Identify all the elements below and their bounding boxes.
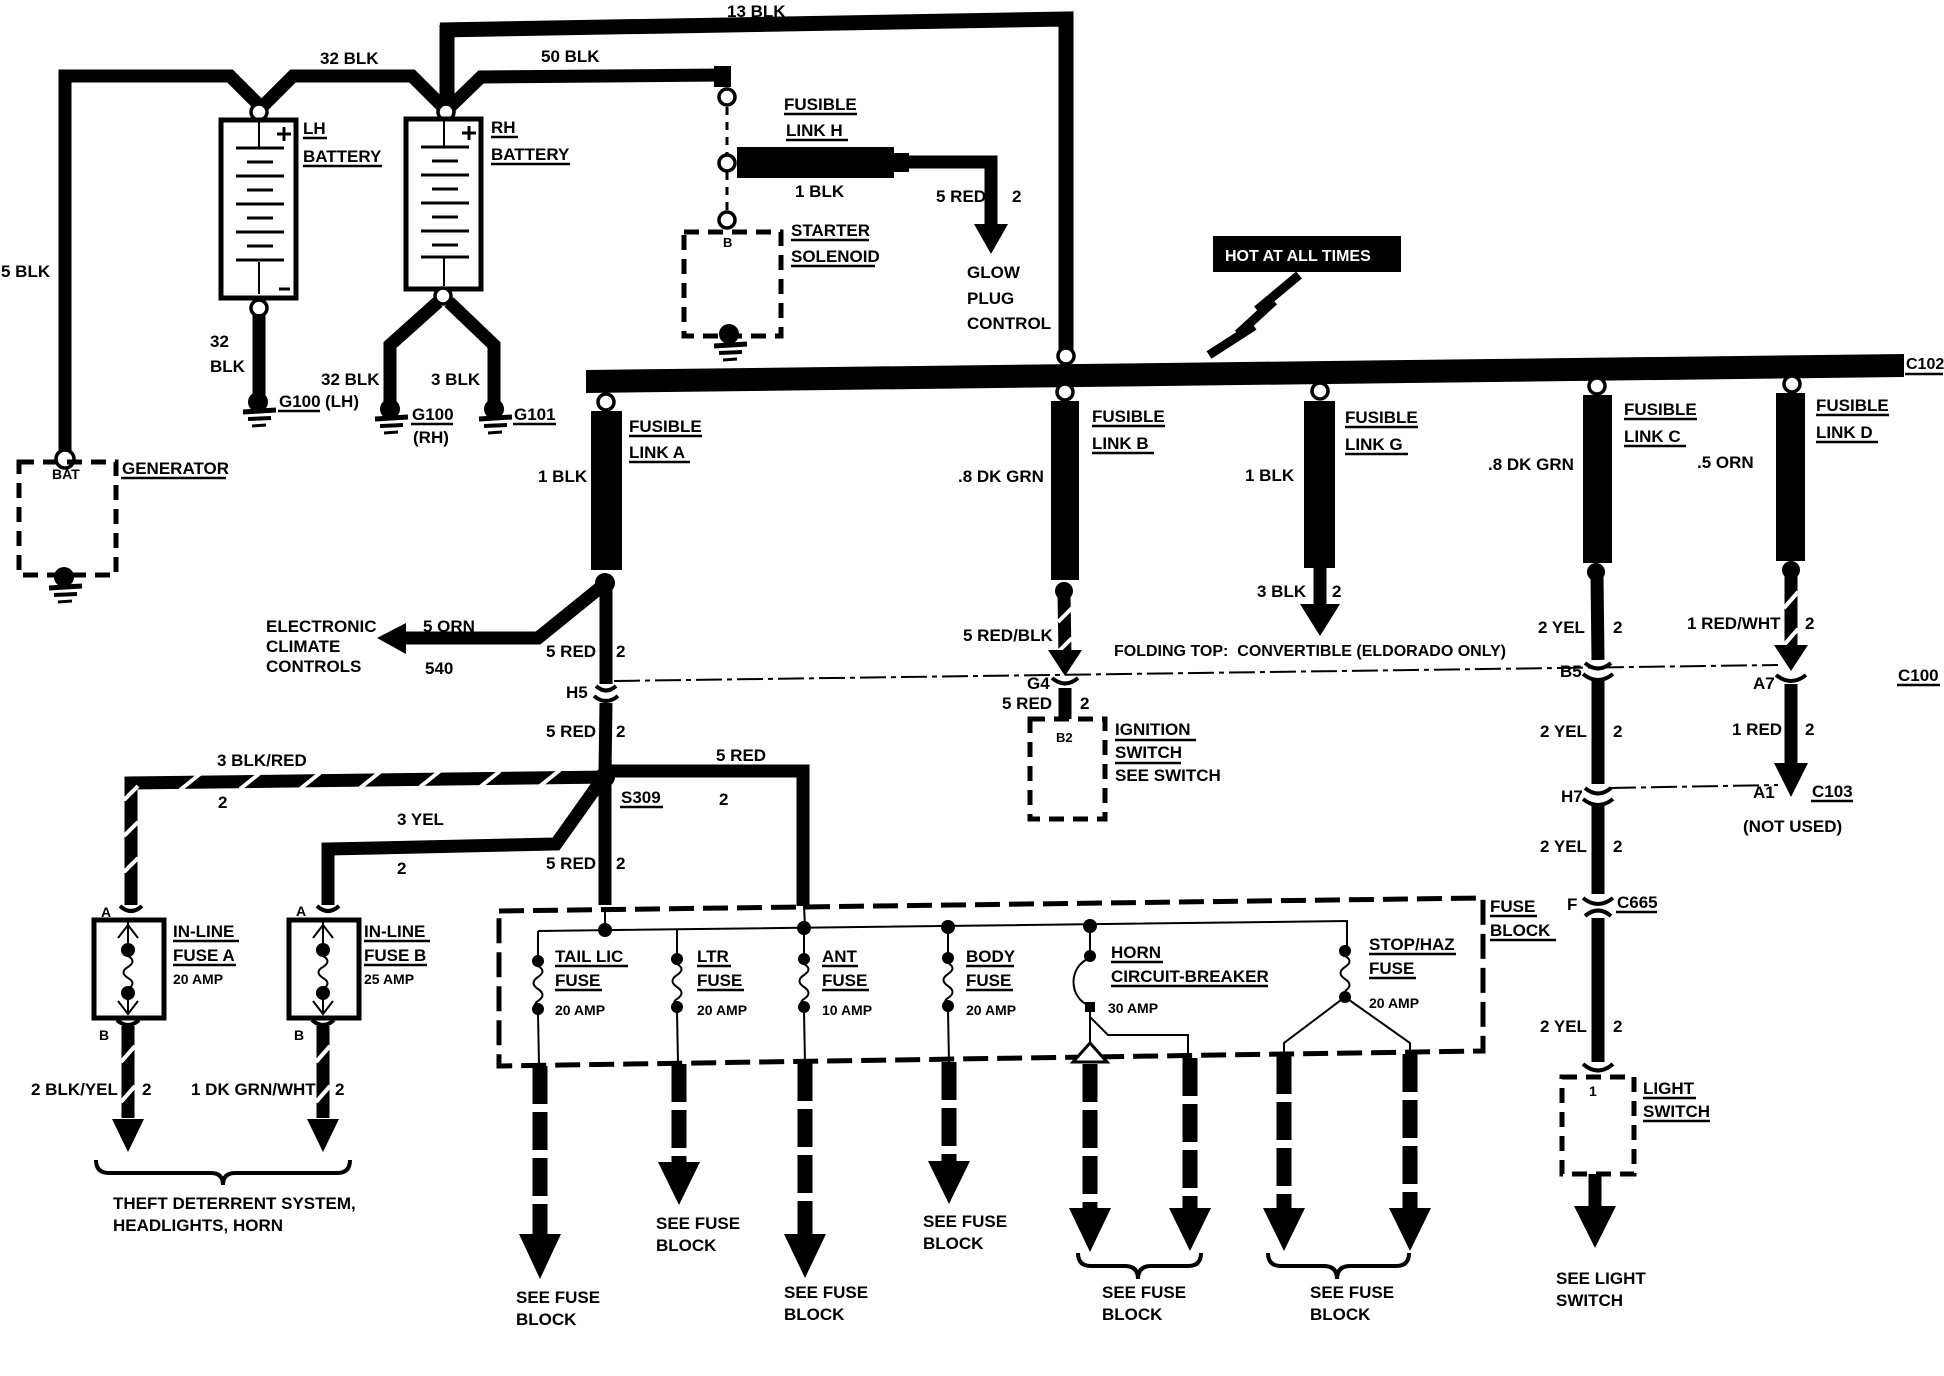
svg-text:SWITCH: SWITCH bbox=[1556, 1291, 1623, 1310]
svg-text:BLOCK: BLOCK bbox=[923, 1234, 984, 1253]
connector A in-line fuse B bbox=[296, 903, 339, 919]
node S309 splice bbox=[595, 767, 663, 807]
svg-text:2: 2 bbox=[616, 722, 625, 741]
svg-text:LINK G: LINK G bbox=[1345, 435, 1403, 454]
svg-text:50 BLK: 50 BLK bbox=[541, 47, 600, 66]
svg-text:B5: B5 bbox=[1560, 662, 1582, 681]
svg-text:FUSE B: FUSE B bbox=[364, 946, 426, 965]
svg-text:SEE FUSE: SEE FUSE bbox=[656, 1214, 740, 1233]
node starter solenoid B terminal bbox=[719, 212, 735, 228]
node fusible link H terminal bbox=[719, 155, 735, 171]
node fusible link G top terminal bbox=[1312, 383, 1328, 399]
svg-text:2: 2 bbox=[1613, 837, 1622, 856]
svg-text:FUSE: FUSE bbox=[1490, 897, 1535, 916]
svg-text:IGNITION: IGNITION bbox=[1115, 720, 1191, 739]
svg-text:B2: B2 bbox=[1056, 730, 1073, 745]
svg-text:5 ORN: 5 ORN bbox=[423, 617, 475, 636]
wire 3 BLK arrow below link G bbox=[1257, 566, 1341, 636]
svg-text:G100: G100 bbox=[279, 392, 321, 411]
svg-text:BLOCK: BLOCK bbox=[1310, 1305, 1371, 1324]
ground G100 (RH) bbox=[375, 399, 454, 447]
connector H5 bbox=[566, 683, 618, 702]
wire 2 YEL H7 to C665 bbox=[1540, 806, 1622, 894]
svg-text:B: B bbox=[99, 1027, 109, 1043]
svg-text:LTR: LTR bbox=[697, 947, 729, 966]
svg-text:1 BLK: 1 BLK bbox=[795, 182, 845, 201]
connector B5 bbox=[1560, 662, 1613, 681]
svg-text:2: 2 bbox=[616, 854, 625, 873]
svg-text:BLOCK: BLOCK bbox=[656, 1236, 717, 1255]
svg-text:IN-LINE: IN-LINE bbox=[173, 922, 234, 941]
svg-text:(RH): (RH) bbox=[413, 428, 449, 447]
fuse STOP/HAZ 20 AMP bbox=[1284, 935, 1456, 1056]
starter solenoid bbox=[684, 221, 880, 336]
svg-text:H5: H5 bbox=[566, 683, 588, 702]
node fusible link D top terminal bbox=[1784, 376, 1800, 392]
svg-text:C103: C103 bbox=[1812, 782, 1853, 801]
svg-text:2 YEL: 2 YEL bbox=[1538, 618, 1585, 637]
svg-text:BATTERY: BATTERY bbox=[491, 145, 570, 164]
wire dashed arrow stop haz right bbox=[1389, 1054, 1431, 1251]
svg-text:3 YEL: 3 YEL bbox=[397, 810, 444, 829]
svg-text:10 AMP: 10 AMP bbox=[822, 1002, 872, 1018]
svg-text:SOLENOID: SOLENOID bbox=[791, 247, 880, 266]
wire dashed arrow below TAIL LIC fuse bbox=[516, 1066, 600, 1329]
svg-text:2: 2 bbox=[1805, 614, 1814, 633]
svg-text:THEFT DETERRENT SYSTEM,: THEFT DETERRENT SYSTEM, bbox=[113, 1194, 356, 1213]
svg-text:BATTERY: BATTERY bbox=[303, 147, 382, 166]
svg-text:SEE FUSE: SEE FUSE bbox=[784, 1283, 868, 1302]
wire 1 RED C100 to C103 bbox=[1732, 684, 1814, 797]
svg-text:20 AMP: 20 AMP bbox=[966, 1002, 1016, 1018]
node C103 not used bbox=[1743, 782, 1853, 836]
svg-text:1 BLK: 1 BLK bbox=[1245, 466, 1295, 485]
node glow plug control label bbox=[967, 263, 1051, 333]
wire 5 RED link A junction to H5 bbox=[546, 588, 625, 684]
node fusible link C top terminal bbox=[1589, 378, 1605, 394]
wire 5 RED H5 to S309 bbox=[546, 703, 625, 772]
fusible link D bbox=[1697, 393, 1889, 561]
wire 32 BLK LH battery to G100 bbox=[210, 314, 259, 398]
svg-text:BLOCK: BLOCK bbox=[784, 1305, 845, 1324]
wire 5 RED S309 to fuse block bbox=[611, 746, 803, 906]
svg-text:2: 2 bbox=[1332, 582, 1341, 601]
connector A7 C100 bbox=[1753, 666, 1940, 693]
svg-text:.8 DK GRN: .8 DK GRN bbox=[1488, 455, 1574, 474]
svg-text:SEE SWITCH: SEE SWITCH bbox=[1115, 766, 1221, 785]
wire dashed arrow horn second bbox=[1169, 1058, 1211, 1251]
svg-text:FUSE A: FUSE A bbox=[173, 946, 235, 965]
svg-text:2: 2 bbox=[218, 793, 227, 812]
svg-text:5 BLK: 5 BLK bbox=[1, 262, 51, 281]
svg-text:LIGHT: LIGHT bbox=[1643, 1079, 1695, 1098]
node junction below link C bbox=[1587, 563, 1605, 581]
svg-text:GENERATOR: GENERATOR bbox=[122, 459, 229, 478]
svg-text:LINK H: LINK H bbox=[786, 121, 843, 140]
wire 13 BLK bbox=[440, 2, 1066, 350]
svg-text:LINK A: LINK A bbox=[629, 443, 685, 462]
ground G101 bbox=[479, 399, 556, 433]
svg-text:C102: C102 bbox=[1906, 356, 1944, 373]
svg-text:540: 540 bbox=[425, 659, 453, 678]
svg-text:ELECTRONIC: ELECTRONIC bbox=[266, 617, 377, 636]
svg-text:BLOCK: BLOCK bbox=[1490, 921, 1551, 940]
connector B in-line fuse A bbox=[99, 1020, 139, 1043]
wire dashed arrow below LTR fuse bbox=[656, 1064, 740, 1255]
svg-text:2: 2 bbox=[335, 1080, 344, 1099]
connector G4 bbox=[1027, 674, 1078, 693]
svg-text:5 RED: 5 RED bbox=[1002, 694, 1052, 713]
svg-text:B: B bbox=[723, 235, 732, 250]
bus bar C102 hot at all times bbox=[586, 354, 1944, 393]
wire 50 BLK bbox=[449, 47, 731, 108]
svg-text:LH: LH bbox=[303, 119, 326, 138]
svg-text:HORN: HORN bbox=[1111, 943, 1161, 962]
svg-text:CONTROLS: CONTROLS bbox=[266, 657, 361, 676]
svg-text:.8 DK GRN: .8 DK GRN bbox=[958, 467, 1044, 486]
fusible link H bbox=[737, 95, 909, 201]
svg-text:PLUG: PLUG bbox=[967, 289, 1014, 308]
fuse ANT 10 AMP bbox=[798, 947, 872, 1063]
wire 2 YEL C665 to light switch bbox=[1540, 918, 1622, 1062]
svg-text:A1: A1 bbox=[1753, 783, 1775, 802]
svg-text:5 RED/BLK: 5 RED/BLK bbox=[963, 626, 1053, 645]
connector H7 bbox=[1561, 787, 1613, 806]
svg-text:2 BLK/YEL: 2 BLK/YEL bbox=[31, 1080, 118, 1099]
svg-text:5 RED: 5 RED bbox=[546, 642, 596, 661]
brace horn group bbox=[1078, 1253, 1201, 1324]
wire 2 YEL link C to B5 bbox=[1538, 576, 1622, 660]
svg-text:SEE FUSE: SEE FUSE bbox=[923, 1212, 1007, 1231]
wire 3 BLK RH battery to G101 bbox=[431, 302, 494, 404]
svg-text:2: 2 bbox=[142, 1080, 151, 1099]
svg-text:32 BLK: 32 BLK bbox=[321, 370, 380, 389]
node electronic climate controls label bbox=[266, 617, 377, 676]
wire 1 DK GRN/WHT striped arrow bbox=[191, 1026, 344, 1152]
svg-text:G101: G101 bbox=[514, 405, 556, 424]
svg-text:3 BLK: 3 BLK bbox=[1257, 582, 1307, 601]
svg-text:FUSIBLE: FUSIBLE bbox=[1345, 408, 1418, 427]
svg-text:5 RED: 5 RED bbox=[546, 722, 596, 741]
svg-text:G100: G100 bbox=[412, 405, 454, 424]
wire dashed link to starter solenoid bbox=[726, 172, 729, 212]
svg-text:2: 2 bbox=[1613, 618, 1622, 637]
svg-text:CONTROL: CONTROL bbox=[967, 314, 1051, 333]
svg-text:TAIL LIC: TAIL LIC bbox=[555, 947, 623, 966]
svg-text:BLOCK: BLOCK bbox=[1102, 1305, 1163, 1324]
svg-text:2 YEL: 2 YEL bbox=[1540, 1017, 1587, 1036]
svg-text:5 RED: 5 RED bbox=[546, 854, 596, 873]
node fusible link A top terminal bbox=[598, 394, 614, 410]
svg-text:2 YEL: 2 YEL bbox=[1540, 837, 1587, 856]
node junction HORN feed bbox=[1083, 919, 1097, 933]
fusible link C bbox=[1488, 395, 1697, 563]
brace theft deterrent group bbox=[96, 1160, 356, 1235]
svg-text:A: A bbox=[296, 903, 306, 919]
fusible link B bbox=[958, 401, 1165, 580]
svg-text:SEE FUSE: SEE FUSE bbox=[1102, 1283, 1186, 1302]
svg-text:LINK C: LINK C bbox=[1624, 427, 1681, 446]
svg-text:H7: H7 bbox=[1561, 787, 1583, 806]
node generator BAT terminal bbox=[56, 450, 74, 468]
svg-text:FUSIBLE: FUSIBLE bbox=[1624, 400, 1697, 419]
svg-text:1 RED: 1 RED bbox=[1732, 720, 1782, 739]
svg-text:STARTER: STARTER bbox=[791, 221, 870, 240]
node RH battery negative terminal bbox=[435, 288, 451, 304]
svg-text:2 YEL: 2 YEL bbox=[1540, 722, 1587, 741]
node junction below link D bbox=[1782, 561, 1800, 579]
svg-text:2: 2 bbox=[719, 790, 728, 809]
wire 3 YEL S309 to in-line fuse B bbox=[328, 782, 600, 905]
svg-text:FUSE: FUSE bbox=[697, 971, 742, 990]
wire dashed link to fusible link H bbox=[726, 107, 729, 155]
svg-text:2: 2 bbox=[1012, 187, 1021, 206]
connector A in-line fuse A bbox=[101, 904, 142, 920]
svg-text:LINK B: LINK B bbox=[1092, 434, 1149, 453]
in-line fuse B bbox=[289, 920, 430, 1018]
svg-text:20 AMP: 20 AMP bbox=[555, 1002, 605, 1018]
wire 1 RED/WHT striped to A7 bbox=[1687, 574, 1814, 671]
svg-text:(NOT USED): (NOT USED) bbox=[1743, 817, 1842, 836]
dash-dot folding top boundary line bbox=[614, 665, 1778, 681]
svg-text:5 RED: 5 RED bbox=[716, 746, 766, 765]
fusible link A bbox=[538, 411, 702, 570]
battery RH bbox=[406, 118, 570, 289]
wire 5 ORN to electronic climate controls bbox=[377, 587, 601, 678]
generator bbox=[19, 459, 229, 575]
node folding top note bbox=[1114, 643, 1506, 660]
wire dashed arrow below BODY fuse bbox=[923, 1062, 1007, 1253]
svg-text:C665: C665 bbox=[1617, 893, 1658, 912]
svg-text:FUSE: FUSE bbox=[966, 971, 1011, 990]
svg-text:(LH): (LH) bbox=[325, 392, 359, 411]
svg-text:1 RED/WHT: 1 RED/WHT bbox=[1687, 614, 1781, 633]
svg-text:20 AMP: 20 AMP bbox=[173, 971, 223, 987]
svg-text:IN-LINE: IN-LINE bbox=[364, 922, 425, 941]
fuse block bbox=[499, 897, 1556, 1066]
wire 32 BLK between batteries bbox=[262, 49, 444, 108]
svg-text:20 AMP: 20 AMP bbox=[1369, 995, 1419, 1011]
ignition switch bbox=[1030, 719, 1221, 819]
wire fuse block internal bus bbox=[538, 906, 1347, 957]
ground starter solenoid bbox=[714, 324, 747, 360]
circuit breaker HORN 30 AMP bbox=[1074, 943, 1269, 1057]
node junction ANT feed bbox=[797, 921, 811, 935]
battery LH bbox=[221, 119, 382, 298]
svg-text:HOT AT ALL TIMES: HOT AT ALL TIMES bbox=[1225, 248, 1371, 265]
ground generator bbox=[49, 567, 82, 602]
svg-text:FUSIBLE: FUSIBLE bbox=[629, 417, 702, 436]
connector C665 F bbox=[1567, 893, 1658, 916]
svg-text:BAT: BAT bbox=[52, 466, 80, 482]
svg-text:LINK D: LINK D bbox=[1816, 423, 1873, 442]
svg-text:SWITCH: SWITCH bbox=[1115, 743, 1182, 762]
svg-text:RH: RH bbox=[491, 118, 516, 137]
svg-text:FUSE: FUSE bbox=[555, 971, 600, 990]
svg-text:1: 1 bbox=[1589, 1083, 1597, 1099]
svg-text:HEADLIGHTS, HORN: HEADLIGHTS, HORN bbox=[113, 1216, 283, 1235]
fuse LTR 20 AMP bbox=[671, 947, 747, 1063]
svg-text:3 BLK/RED: 3 BLK/RED bbox=[217, 751, 307, 770]
svg-text:S309: S309 bbox=[621, 788, 661, 807]
svg-text:CIRCUIT-BREAKER: CIRCUIT-BREAKER bbox=[1111, 967, 1269, 986]
wire 5 RED/BLK striped to G4 bbox=[963, 595, 1082, 676]
svg-text:5 RED: 5 RED bbox=[936, 187, 986, 206]
wire 5 BLK generator to junction bbox=[1, 76, 261, 455]
svg-text:BODY: BODY bbox=[966, 947, 1016, 966]
svg-text:SEE FUSE: SEE FUSE bbox=[1310, 1283, 1394, 1302]
connector B in-line fuse B bbox=[294, 1020, 334, 1043]
svg-text:A7: A7 bbox=[1753, 674, 1775, 693]
svg-text:2: 2 bbox=[1805, 720, 1814, 739]
wire dashed arrow horn feed up bbox=[1069, 1043, 1111, 1252]
svg-text:2: 2 bbox=[1613, 722, 1622, 741]
svg-text:GLOW: GLOW bbox=[967, 263, 1021, 282]
svg-text:ANT: ANT bbox=[822, 947, 858, 966]
svg-text:2: 2 bbox=[616, 642, 625, 661]
node 50 BLK end terminal bbox=[719, 89, 735, 105]
svg-text:32 BLK: 32 BLK bbox=[320, 49, 379, 68]
svg-text:32: 32 bbox=[210, 332, 229, 351]
svg-text:SEE FUSE: SEE FUSE bbox=[516, 1288, 600, 1307]
node junction BODY feed bbox=[941, 920, 955, 934]
fusible link G bbox=[1245, 401, 1418, 568]
fuse BODY 20 AMP bbox=[942, 947, 1016, 1062]
svg-text:BLOCK: BLOCK bbox=[516, 1310, 577, 1329]
svg-text:B: B bbox=[294, 1027, 304, 1043]
light switch bbox=[1562, 1077, 1710, 1174]
svg-text:2: 2 bbox=[1080, 694, 1089, 713]
node LH battery negative terminal bbox=[251, 300, 267, 316]
node junction below link A bbox=[595, 573, 615, 593]
wire dashed arrow below ANT fuse bbox=[784, 1063, 868, 1324]
svg-text:STOP/HAZ: STOP/HAZ bbox=[1369, 935, 1455, 954]
svg-text:.5 ORN: .5 ORN bbox=[1697, 453, 1754, 472]
wire dashed arrow stop haz left bbox=[1263, 1056, 1305, 1251]
svg-text:SWITCH: SWITCH bbox=[1643, 1102, 1710, 1121]
svg-text:FUSIBLE: FUSIBLE bbox=[1092, 407, 1165, 426]
svg-text:FUSE: FUSE bbox=[1369, 959, 1414, 978]
wire arrow below light switch bbox=[1556, 1174, 1646, 1310]
svg-text:13 BLK: 13 BLK bbox=[727, 2, 786, 21]
fuse TAIL LIC 20 AMP bbox=[532, 947, 628, 1064]
svg-text:FOLDING TOP: CONVERTIBLE (ELD: FOLDING TOP: CONVERTIBLE (ELDORADO ONLY) bbox=[1114, 643, 1506, 660]
wire 5 RED S309 down to fuse block bbox=[546, 782, 625, 905]
wire 5 RED to glow plug control bbox=[906, 162, 1021, 254]
ground G100 (LH) bbox=[243, 392, 359, 426]
in-line fuse A bbox=[94, 920, 239, 1018]
wire 3 BLK/RED striped S309 to in-line fuse A bbox=[124, 751, 611, 905]
svg-text:SEE LIGHT: SEE LIGHT bbox=[1556, 1269, 1646, 1288]
node junction 5 RED at bus bbox=[598, 923, 612, 937]
svg-text:C100: C100 bbox=[1898, 666, 1939, 685]
node junction below link B bbox=[1055, 582, 1073, 600]
lightning bolt bbox=[1209, 275, 1299, 355]
node 13 BLK to bus junction bbox=[1058, 348, 1074, 364]
wire 5 RED G4 to ignition switch bbox=[1002, 688, 1089, 719]
wire 2 YEL B5 to H7 bbox=[1540, 681, 1622, 784]
svg-text:FUSE: FUSE bbox=[822, 971, 867, 990]
HOT AT ALL TIMES label bbox=[1213, 236, 1401, 272]
svg-text:1 DK GRN/WHT: 1 DK GRN/WHT bbox=[191, 1080, 316, 1099]
wire 32 BLK RH battery to G100 RH bbox=[321, 302, 438, 404]
svg-text:F: F bbox=[1567, 895, 1577, 914]
svg-text:BLK: BLK bbox=[210, 357, 246, 376]
svg-text:FUSIBLE: FUSIBLE bbox=[784, 95, 857, 114]
node RH battery positive terminal bbox=[438, 104, 454, 120]
svg-text:2: 2 bbox=[1613, 1017, 1622, 1036]
connector light switch pin 1 bbox=[1583, 1064, 1613, 1071]
brace stop haz group bbox=[1268, 1253, 1409, 1324]
svg-text:1 BLK: 1 BLK bbox=[538, 467, 588, 486]
node LH battery positive terminal bbox=[251, 104, 267, 120]
svg-text:3 BLK: 3 BLK bbox=[431, 370, 481, 389]
svg-text:25 AMP: 25 AMP bbox=[364, 971, 414, 987]
svg-text:CLIMATE: CLIMATE bbox=[266, 637, 340, 656]
svg-text:2: 2 bbox=[397, 859, 406, 878]
svg-text:G4: G4 bbox=[1027, 674, 1050, 693]
node fusible link B top terminal bbox=[1057, 384, 1073, 400]
svg-text:30 AMP: 30 AMP bbox=[1108, 1000, 1158, 1016]
svg-text:FUSIBLE: FUSIBLE bbox=[1816, 396, 1889, 415]
svg-text:20 AMP: 20 AMP bbox=[697, 1002, 747, 1018]
wire 2 BLK/YEL striped arrow bbox=[31, 1026, 151, 1152]
dash-dot line H7 to C103 bbox=[1610, 785, 1778, 788]
